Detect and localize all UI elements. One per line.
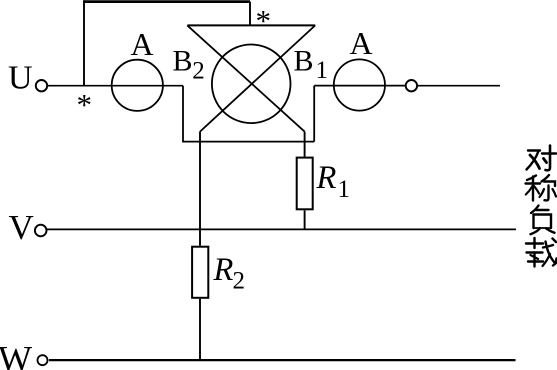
svg-text:1: 1: [338, 176, 351, 203]
svg-text:U: U: [8, 60, 33, 97]
terminal load side: [406, 80, 417, 91]
wire: right vertical from top wire down to wattmeter top edge: [249, 2, 251, 26]
wattmeter W1: crossed coil diagonal 2: [200, 25, 315, 131]
char 载: [526, 238, 557, 267]
wire: U line to load: [417, 85, 500, 87]
svg-text:V: V: [9, 208, 34, 247]
svg-text:*: *: [256, 3, 272, 38]
terminal V: [35, 225, 47, 237]
wattmeter W1: circle: [212, 45, 291, 124]
wire: V line: [47, 228, 516, 230]
wire: from left coil end down through V line to R2: [199, 132, 201, 246]
wattmeter W1: top edge: [187, 24, 315, 26]
svg-text:2: 2: [233, 268, 246, 295]
wire: right vertical of wattmeter current path: [313, 86, 315, 142]
svg-text:2: 2: [192, 58, 205, 85]
load label: Chinese vertical text 对称负载 (symmetric load), hand-drawn strokes: [526, 146, 557, 267]
svg-text:B: B: [294, 44, 314, 77]
wattmeter W1: crossed coil diagonal 1: [187, 25, 304, 131]
svg-text:R: R: [213, 252, 234, 288]
wire: left vertical from top wire down to U line junction: [83, 0, 85, 86]
char 对: [527, 146, 557, 171]
svg-text:B: B: [173, 44, 193, 77]
svg-text:A: A: [350, 25, 373, 61]
svg-text:*: *: [77, 87, 93, 122]
char 称: [526, 175, 557, 201]
resistor R1: [297, 158, 313, 210]
wire: W line: [49, 359, 516, 361]
wire: U line right segment through ammeter 2: [314, 85, 406, 87]
ammeter A2: [334, 59, 385, 110]
wire: wattmeter bottom edge: [182, 141, 314, 143]
svg-text:1: 1: [316, 57, 329, 84]
wire: top thick wire from node above U junction to wattmeter voltage terminal: [84, 0, 250, 3]
wire: left vertical of wattmeter current path: [182, 86, 184, 142]
char 负: [531, 206, 555, 235]
wire: R2 bottom to W line: [199, 299, 201, 360]
wire: U line left segment through ammeter 1: [47, 85, 183, 87]
ammeter A1: [112, 60, 163, 111]
svg-text:W: W: [0, 339, 32, 370]
wire: R1 bottom to V line: [304, 210, 306, 229]
wire: from right coil end down to R1: [304, 132, 306, 157]
svg-text:R: R: [316, 160, 337, 196]
resistor R2: [192, 247, 208, 298]
svg-text:A: A: [131, 26, 154, 62]
terminal U: [36, 80, 47, 91]
terminal W: [38, 355, 48, 365]
